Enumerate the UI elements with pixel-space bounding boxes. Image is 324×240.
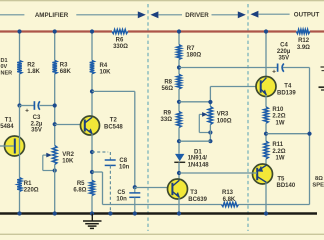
svg-text:100Ω: 100Ω [217,119,232,125]
bottom edge shading [0,234,324,235]
section label DRIVER with arrow lines [150,11,158,18]
node R7/R8 bootstrap tap [177,65,181,69]
top edge shading [0,0,324,1]
svg-text:R7: R7 [187,46,195,52]
svg-text:3.9Ω: 3.9Ω [297,45,310,51]
bootstrap wire R7/R8 node to C4 [179,67,277,69]
resistor R11 2.2ohm 1W [264,141,269,159]
svg-text:220µ: 220µ [277,49,291,55]
node D1/T5 base [177,171,181,175]
wire C4 to speaker line [283,67,310,69]
coupling wire T2 collector to T3 base [92,90,135,92]
svg-text:BC548: BC548 [104,124,123,130]
wire T3 emitter to ground [178,198,180,214]
wire R7 to R8 [178,60,180,75]
wire R8 to R9 [178,89,180,112]
svg-text:R10: R10 [272,107,284,113]
resistor R2 1.8K [17,60,22,73]
node C3/R3 [53,103,57,107]
node VR3 top [208,100,212,104]
resistor R1 220ohm [17,178,22,192]
svg-text:R2: R2 [27,63,35,69]
svg-text:2.2Ω: 2.2Ω [272,114,285,120]
wire VR2 to ground [54,165,56,214]
svg-text:+: + [25,107,29,114]
svg-text:68K: 68K [60,69,72,75]
wire R3 to nodes [54,74,56,146]
svg-text:2.2Ω: 2.2Ω [272,149,285,155]
ground junction R1 [17,211,21,215]
wire T4 base from VR3 top [210,86,261,88]
svg-text:C4: C4 [280,42,288,48]
capacitor C4 220u 35V [277,64,279,72]
svg-text:1N914/: 1N914/ [188,156,208,162]
svg-text:T1: T1 [5,117,13,123]
capacitor C5 10n [134,187,136,192]
ground junction R5 / ground symbol node [90,211,94,215]
ground junction VR2 [53,211,57,215]
svg-text:C8: C8 [119,158,127,164]
ground junction C8 [108,211,112,215]
wire VR3 bottom to D1 node [209,125,211,142]
cut-off component marks at right edge [321,66,324,68]
svg-text:R11: R11 [272,142,283,148]
svg-text:1W: 1W [276,121,285,127]
svg-text:1W: 1W [276,155,285,161]
svg-text:10K: 10K [62,159,74,165]
potentiometer VR2 10K [52,146,57,165]
resistor R6 330ohm (series in rail) [112,29,128,33]
svg-text:1N4148: 1N4148 [188,163,210,169]
svg-text:R13: R13 [222,190,234,196]
resistor R5 6.8ohm [90,180,95,195]
diode D1 1N914/1N4148 [175,154,184,161]
feedback wire from T2 emitter [92,171,103,173]
svg-text:T5: T5 [277,176,285,182]
svg-text:OUTPUT: OUTPUT [294,12,320,19]
svg-text:10K: 10K [100,70,112,76]
wire T2 base [55,124,82,126]
svg-text:SPE: SPE [312,183,324,189]
VR2 wiper return wire [42,155,44,170]
svg-text:NER: NER [1,71,13,77]
T1 gate wire from left edge [0,145,14,147]
wire rail to T4 collector [265,32,267,78]
ground symbol [91,214,93,221]
section divider dashed line (driver/output) [247,4,249,231]
svg-text:R1: R1 [24,181,32,187]
svg-text:R3: R3 [60,63,68,69]
svg-text:330Ω: 330Ω [113,44,128,50]
wire rail to R4 [91,32,93,61]
svg-text:6.8Ω: 6.8Ω [73,187,86,193]
node T3 base / C5 [133,185,137,189]
wire T5 base [179,172,257,174]
wire T3 base [135,187,168,189]
VR3 wiper arrow [199,113,203,115]
wire R9 to D1 [178,128,180,154]
section label OUTPUT with arrow line [250,11,258,18]
ground rail (black) [0,212,317,215]
node R9/VR3 bottom/D1 [177,139,181,143]
VR3 wiper return wire [198,114,200,132]
output node [264,132,268,136]
svg-text:35V: 35V [31,128,42,134]
ground junction T5 [264,211,268,215]
node VR3 bottom [208,130,212,134]
section label AMPLIFIER with arrow lines [0,14,24,16]
node feedback tap [90,170,94,174]
svg-text:BC639: BC639 [188,197,207,203]
rail junction R3 [53,29,57,33]
svg-text:35V: 35V [278,56,289,62]
svg-text:T4: T4 [284,84,292,90]
wire T4 emitter to R10 [265,95,267,107]
svg-text:10n: 10n [116,197,127,203]
svg-text:5484: 5484 [0,124,14,130]
wire R1 to ground [19,192,21,214]
wire R5 to ground [91,196,93,214]
node R3/T2 base [53,122,57,126]
svg-text:R12: R12 [298,38,310,44]
rail junction R7 [177,29,181,33]
svg-text:D1: D1 [1,58,8,64]
speaker feed wire (right) [309,68,311,205]
rail junction R4 [90,29,94,33]
svg-text:AMPLIFIER: AMPLIFIER [35,12,69,19]
svg-text:C5: C5 [117,190,125,196]
capacitor C8 10n with dashed connection [92,151,108,153]
svg-text:R9: R9 [163,110,171,116]
resistor R10 2.2ohm 1W [264,107,269,123]
svg-text:BD139: BD139 [277,91,296,97]
speaker return wire [239,204,310,206]
wire R2 to C3 node [19,74,21,106]
corner node VR3/D1 wire [208,139,212,143]
svg-text:T2: T2 [110,117,118,123]
section divider dashed line (amplifier/driver) [147,4,149,231]
wire D1 to T3 [178,162,180,179]
svg-text:VR3: VR3 [217,112,229,118]
wire R10 to output node [265,123,267,141]
potentiometer VR3 100ohm [209,87,211,107]
svg-text:33Ω: 33Ω [161,117,173,123]
svg-text:C3: C3 [33,115,41,121]
+V supply rail (red) [0,30,112,32]
svg-text:D1: D1 [194,149,202,155]
svg-text:6.8K: 6.8K [223,197,236,203]
resistor R4 10K [90,60,95,73]
node C8 tap [90,150,94,154]
VR2 wiper arrow [43,154,48,156]
wire rail to R2 [19,32,21,61]
svg-text:VR2: VR2 [62,152,74,158]
ground junction C5 [133,211,137,215]
wire R4 to T2 collector node [91,74,93,118]
svg-text:R4: R4 [100,63,108,69]
node T2 collector / coupling to T3 [90,89,94,93]
resistor R3 68K [52,60,57,73]
resistor R7 180ohm [177,45,182,60]
svg-text:R6: R6 [116,37,124,43]
resistor R9 33ohm [177,112,182,128]
node R8/R9/VR3 top [177,100,181,104]
resistor R8 56ohm [177,74,182,89]
node VR2 bottom [53,168,57,172]
svg-text:BD140: BD140 [277,183,296,189]
node R2/C3/T1 drain [17,103,21,107]
rail junction R2 [17,29,21,33]
capacitor C3 2.2u 35V [20,105,35,107]
wire T2 emitter down [91,134,93,181]
svg-text:8Ω: 8Ω [315,176,323,182]
resistor R13 6.8K [222,202,239,206]
wire output node to speaker line [266,133,310,135]
wire T1 drain/source channel [19,106,21,178]
wire to VR3 top [179,101,210,103]
svg-text:+: + [272,68,276,75]
wire T5 collector to ground [265,182,267,213]
node speaker feed [307,132,311,136]
svg-text:0V: 0V [1,64,8,70]
svg-text:DRIVER: DRIVER [185,12,209,19]
resistor R12 3.9ohm (series in rail) [296,29,309,33]
svg-text:56Ω: 56Ω [162,86,174,92]
svg-text:10n: 10n [119,165,130,171]
wire rail to R7 [178,32,180,45]
svg-text:180Ω: 180Ω [186,53,201,59]
svg-text:R8: R8 [164,79,172,85]
svg-text:220Ω: 220Ω [24,188,39,194]
rail junction T4 [264,29,268,33]
svg-text:R5: R5 [77,181,85,187]
wire R11 to T5 emitter [265,159,267,166]
svg-text:2.2µ: 2.2µ [31,121,43,127]
svg-text:T3: T3 [190,190,198,196]
wire rail to R3 [54,32,56,61]
svg-text:1.8K: 1.8K [27,69,40,75]
ground junction T3 [177,211,181,215]
